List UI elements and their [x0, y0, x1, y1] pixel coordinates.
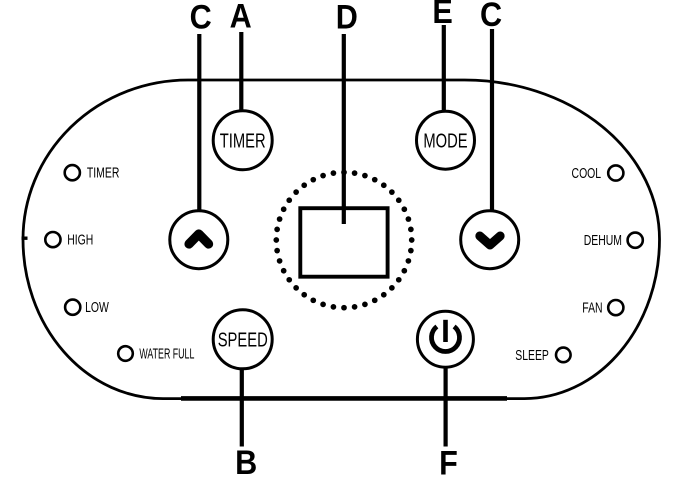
led SLEEP — [515, 347, 570, 363]
svg-text:LOW: LOW — [85, 300, 109, 316]
svg-text:WATER FULL: WATER FULL — [139, 345, 194, 362]
button down-arrow — [461, 211, 519, 269]
leader line B from SPEED button — [240, 369, 244, 447]
dotted circle around display — [273, 169, 414, 310]
led LOW — [65, 300, 109, 316]
leader line E to MODE button — [442, 25, 446, 111]
control panel outline — [23, 80, 660, 399]
svg-text:B: B — [235, 444, 257, 482]
label F — [439, 444, 458, 482]
leader line C (left) to up button — [197, 34, 201, 210]
outline bottom thick segment — [181, 396, 507, 401]
led DEHUM — [584, 233, 643, 249]
leader line D to display window — [342, 34, 346, 224]
led COOL — [572, 165, 624, 181]
svg-text:COOL: COOL — [572, 165, 602, 181]
led TIMER — [65, 165, 120, 181]
leader line F from power button — [444, 367, 448, 447]
svg-text:A: A — [230, 0, 252, 35]
label D — [336, 0, 358, 36]
label C (right) — [480, 0, 502, 33]
label B — [235, 444, 257, 482]
display window — [300, 208, 387, 277]
button MODE — [417, 111, 475, 169]
tick on left edge — [22, 237, 28, 240]
leader line C (right) to down button — [490, 29, 494, 211]
led WATER FULL — [118, 345, 194, 362]
svg-text:HIGH: HIGH — [67, 232, 93, 248]
label E — [432, 0, 452, 30]
svg-text:D: D — [336, 0, 358, 36]
button SPEED — [213, 310, 272, 369]
leader line A to TIMER button — [239, 32, 243, 110]
label C (left) — [190, 0, 212, 36]
svg-text:DEHUM: DEHUM — [584, 233, 622, 249]
led FAN — [582, 300, 623, 316]
svg-text:MODE: MODE — [423, 129, 467, 152]
button up-arrow — [170, 211, 228, 269]
svg-text:F: F — [439, 444, 458, 482]
svg-text:TIMER: TIMER — [220, 129, 266, 152]
label A — [230, 0, 252, 35]
svg-text:SPEED: SPEED — [218, 328, 268, 351]
svg-text:TIMER: TIMER — [87, 165, 119, 181]
svg-text:C: C — [190, 0, 212, 36]
button TIMER — [213, 111, 272, 170]
led HIGH — [45, 232, 93, 248]
svg-text:C: C — [480, 0, 502, 33]
button power — [417, 311, 473, 367]
svg-text:SLEEP: SLEEP — [515, 347, 549, 363]
svg-text:FAN: FAN — [582, 300, 602, 316]
